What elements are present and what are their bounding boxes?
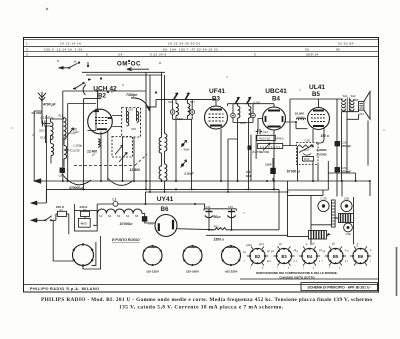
coil S20 between buses <box>159 138 161 154</box>
resistor 250 ohm <box>58 211 67 216</box>
svg-text:S2: S2 <box>108 214 112 218</box>
svg-text:90pF: 90pF <box>184 147 191 151</box>
svg-text:S4: S4 <box>126 214 130 218</box>
capacitor C25 4700pF (block) <box>335 142 340 146</box>
svg-text:S15: S15 <box>131 127 136 131</box>
svg-text:0.27MΩ: 0.27MΩ <box>317 152 327 156</box>
IF2 trimmer capacitor left <box>231 113 236 118</box>
svg-text:50µF: 50µF <box>214 215 221 219</box>
capacitor C05 block <box>142 217 147 222</box>
coil S3 (OC antenna) <box>51 144 54 156</box>
dial scale row 2 numbers <box>26 47 340 51</box>
svg-text:C24: C24 <box>263 130 269 134</box>
printed caption under the sheet <box>41 297 372 310</box>
svg-text:28.97.24·: 28.97.24· <box>306 52 319 56</box>
wire corner right panel <box>288 181 324 237</box>
B plus feed line to output stage <box>290 99 343 146</box>
svg-text:C 29: C 29 <box>320 196 326 200</box>
main chassis bus wire <box>41 181 370 196</box>
svg-text:19·22·24·30·50·51·: 19·22·24·30·50·51· <box>168 42 202 46</box>
band switch wafer 2 <box>73 83 84 89</box>
wire left column verticals <box>63 91 146 189</box>
svg-text:C26: C26 <box>305 139 311 143</box>
svg-text:S12: S12 <box>40 135 46 139</box>
tuning gang arc 1 <box>62 174 91 185</box>
coil S1 (antenna primary) <box>51 122 54 140</box>
wire rectifier anode lead <box>177 229 213 230</box>
svg-text:1·: 1· <box>26 42 29 46</box>
heater bus wire <box>146 192 288 204</box>
wire C2 to coil S1 <box>42 111 51 124</box>
wire B5 cathode resistor <box>313 128 324 143</box>
svg-text:4700pF: 4700pF <box>340 144 351 148</box>
svg-text:SCHEMA DI PRINCIPIO · APP. BI: SCHEMA DI PRINCIPIO · APP. BI 201 U · <box>308 285 372 289</box>
svg-text:MΩ: MΩ <box>246 174 251 178</box>
wire coil block <box>46 118 70 167</box>
cathode coil <box>98 139 100 147</box>
svg-text:C05: C05 <box>148 222 154 226</box>
wire to coil bar <box>311 224 332 226</box>
svg-text:4700pF: 4700pF <box>340 170 351 174</box>
grid line vertical with coils <box>162 72 165 137</box>
core lines <box>347 98 349 112</box>
trimmer box below B2 (dashed) <box>112 137 133 158</box>
svg-text:0.47 MΩ VOL: 0.47 MΩ VOL <box>252 150 269 154</box>
svg-text:+82 220V: +82 220V <box>225 269 238 273</box>
wire IF2 to tubes <box>228 104 275 190</box>
svg-text:1500 Ω: 1500 Ω <box>214 238 225 242</box>
svg-text:g2-4: g2-4 <box>259 243 264 246</box>
svg-text:90pF: 90pF <box>177 117 184 121</box>
trimmer C11 arrow <box>115 146 123 155</box>
wire transformer down with capacitors <box>288 99 356 197</box>
title strip box (bottom) <box>24 284 379 286</box>
dial scale row 1 numbers <box>26 42 355 46</box>
wire B3 cathode lead <box>221 129 238 192</box>
tone pot arrow <box>299 145 313 153</box>
choke terminal labels <box>99 214 139 218</box>
svg-text:5·: 5· <box>86 52 89 56</box>
tube UL41 B5 <box>308 108 330 130</box>
svg-text:244: 244 <box>359 112 364 116</box>
oscillator coil windings <box>127 112 129 126</box>
svg-text:91·52·84·: 91·52·84· <box>338 42 355 46</box>
svg-text:3.4·: 3.4· <box>118 52 123 56</box>
capacitor 1100 electrolytic blob <box>270 168 276 174</box>
wire switch node down to selector <box>53 220 73 261</box>
svg-text:S14: S14 <box>128 108 133 112</box>
svg-text:95·: 95· <box>336 47 340 51</box>
svg-text:B3: B3 <box>281 254 287 259</box>
svg-text:C32: C32 <box>206 205 211 209</box>
shield box double top line <box>82 72 165 75</box>
svg-text:UY41: UY41 <box>157 196 174 203</box>
tuning gang arc 2 <box>108 178 133 185</box>
socket B3 <box>271 243 297 270</box>
chassis bus arrow left <box>34 179 42 184</box>
svg-text:0.68MΩ: 0.68MΩ <box>317 148 327 152</box>
dial scale table rules <box>24 39 379 56</box>
wire right end of buses <box>342 121 368 197</box>
svg-text:g1S2: g1S2 <box>246 244 252 247</box>
svg-text:10'000pF: 10'000pF <box>120 222 134 226</box>
svg-text:B4: B4 <box>307 254 313 259</box>
electrolytic C32 <box>206 211 213 213</box>
wire switch to tube grid <box>88 62 98 110</box>
tone pot resistor <box>298 145 315 148</box>
svg-text:60· 164· 165.7· 47.52·54·19·31: 60· 164· 165.7· 47.52·54·19·31· <box>163 47 220 51</box>
svg-text:B5: B5 <box>333 254 339 259</box>
dial scale row 3 numbers <box>26 52 319 56</box>
tube UCH42 B2 <box>88 109 113 134</box>
wire B4 cathode down <box>251 119 274 190</box>
wire tone box <box>283 146 318 182</box>
svg-text:110·125V: 110·125V <box>146 269 159 273</box>
capacitor C27 block <box>335 168 340 172</box>
coil S4 (OC secondary) <box>64 146 67 159</box>
wire choke to rectifier <box>142 214 155 224</box>
wire IF1 to tubes <box>146 99 216 189</box>
trimmer C12 arrow <box>119 153 127 163</box>
svg-text:·1.300p: ·1.300p <box>72 143 83 147</box>
loudspeaker <box>359 92 371 120</box>
primary winding <box>342 99 346 111</box>
IF transformer 1 secondary coil <box>188 104 190 116</box>
svg-text:UBC41: UBC41 <box>265 88 287 95</box>
switch wafer arc <box>83 85 86 96</box>
svg-text:C1·560·: C1·560· <box>32 111 43 115</box>
coil S2 (antenna secondary) <box>64 118 67 140</box>
svg-text:DISPOSIZIONE DEI COMPENSATORI: DISPOSIZIONE DEI COMPENSATORI E DELLE BO… <box>256 271 338 275</box>
svg-text:10'000 pF: 10'000 pF <box>287 169 301 173</box>
resistor unit outer box <box>75 211 98 231</box>
svg-text:CHASSIS VISTO SOTTO: CHASSIS VISTO SOTTO <box>279 276 315 280</box>
band switch contacts <box>59 63 78 68</box>
electrolytic C33 <box>228 211 235 213</box>
trimmer arrow on S22 <box>181 160 187 168</box>
heater return wire <box>206 234 288 236</box>
svg-text:2·: 2· <box>26 47 29 51</box>
resistor R16 box <box>303 157 314 162</box>
socket B2 <box>243 243 270 270</box>
coil S23 lower <box>165 164 167 181</box>
filter choke winding <box>98 209 143 214</box>
mains prong arrow 2 <box>31 218 38 222</box>
svg-text:B4: B4 <box>272 96 280 103</box>
svg-text:C30: C30 <box>344 196 350 200</box>
wire switch to R250 <box>56 214 69 234</box>
svg-text:46 Ω: 46 Ω <box>81 221 87 225</box>
voltage diagram +82 220V <box>222 245 241 273</box>
bus wire y230 <box>209 189 279 229</box>
resistor 1500 ohm zigzag <box>214 228 228 230</box>
socket B6 <box>347 243 372 266</box>
trimmer C14 arrow with blob <box>181 141 187 148</box>
resistor 46 ohm <box>79 218 91 227</box>
svg-text:7300pF: 7300pF <box>126 93 138 97</box>
svg-text:12.500: 12.500 <box>130 168 140 172</box>
pilot lamp L1 <box>113 202 118 207</box>
coil bar (side view) <box>332 200 336 227</box>
IF transformer 1 core arrows <box>174 93 189 99</box>
trimmer C29 <box>318 200 329 211</box>
IF can top view 1 <box>334 214 354 223</box>
svg-text:S17: S17 <box>190 100 195 104</box>
trimmer C28 <box>344 223 353 232</box>
trimmer C4 7-30pF <box>67 128 74 137</box>
svg-text:C28: C28 <box>345 232 351 236</box>
svg-text:9.52.34.9·: 9.52.34.9· <box>150 52 168 56</box>
bottom panel divider above title strip <box>240 278 379 280</box>
nested corner wires top <box>146 72 150 192</box>
B plus wire through lamp <box>93 204 205 225</box>
svg-text:R2: R2 <box>83 208 87 212</box>
svg-text:L1: L1 <box>113 197 117 201</box>
svg-text:90pF: 90pF <box>240 121 247 125</box>
tuning capacitor curved arrow <box>131 98 150 111</box>
svg-text:150 Ω: 150 Ω <box>321 134 329 138</box>
schema strip box <box>301 283 378 291</box>
wire B2 cathode down <box>101 132 108 182</box>
svg-text:10·12·14·16·: 10·12·14·16· <box>60 42 83 46</box>
IF transformer 1 primary coil <box>176 104 178 116</box>
resistor 240 ohm <box>81 211 90 216</box>
svg-text:3·: 3· <box>26 52 29 56</box>
svg-text:R17: R17 <box>304 148 310 152</box>
svg-text:C33: C33 <box>228 205 233 209</box>
resistor box R12 <box>257 135 276 140</box>
svg-text:UF41: UF41 <box>209 88 225 95</box>
IF transformer 2 secondary coil <box>249 106 251 118</box>
svg-text:B2: B2 <box>255 254 261 259</box>
voltage selector drum <box>73 236 101 269</box>
capacitor C8 block <box>60 168 65 173</box>
capacitor C2 560pF <box>43 121 47 127</box>
wires mid verticals <box>123 108 137 181</box>
trimmer C30 <box>341 200 352 211</box>
socket B5 <box>322 243 347 270</box>
svg-text:PHILIPS·RADIO S.p.A. MILANO: PHILIPS·RADIO S.p.A. MILANO <box>30 287 100 291</box>
trimmer panel left border <box>311 195 354 245</box>
svg-text:3.30pF: 3.30pF <box>184 172 194 176</box>
tube UBC41 B4 <box>263 107 286 130</box>
svg-text:125·160V: 125·160V <box>186 269 199 273</box>
tone network dashed box <box>297 143 319 165</box>
svg-text:S5: S5 <box>135 214 139 218</box>
svg-text:B5: B5 <box>312 91 320 98</box>
wire electrolytic leads <box>209 212 232 230</box>
voltage diagram 125-160V <box>183 245 202 273</box>
svg-text:135 V, catodo 5,8 V. Corrente: 135 V, catodo 5,8 V. Corrente 38 mA plac… <box>119 304 284 310</box>
svg-text:C8: C8 <box>59 174 63 178</box>
IF transformer 2 core arrows <box>236 97 251 103</box>
socket B4 <box>296 243 322 270</box>
IF can top view 2 <box>309 231 331 240</box>
svg-text:S3: S3 <box>117 214 121 218</box>
antenna <box>38 92 46 104</box>
rectifier tube UY41 B6 <box>155 215 177 237</box>
coil S22 lower <box>159 166 161 179</box>
screen grid resistor squiggle <box>296 118 306 120</box>
IF2 trimmer capacitor right <box>251 113 256 118</box>
scan noise specks <box>11 8 384 247</box>
oscillator coil assembly (dashed box) <box>122 108 141 138</box>
svg-text:B6: B6 <box>161 206 169 213</box>
antenna lead wire <box>34 103 42 181</box>
junction dots on buses <box>62 180 371 231</box>
svg-text:1100: 1100 <box>265 162 272 166</box>
mains wire 1 up to bus <box>37 189 46 203</box>
secondary winding <box>350 99 354 111</box>
svg-text:100·0· 12·14·16· 1·50·: 100·0· 12·14·16· 1·50· <box>44 47 84 51</box>
svg-text:R1: R1 <box>60 208 64 212</box>
wire 0.2M and blob <box>272 158 274 181</box>
electrolytic C32 C33 bracket <box>204 204 236 212</box>
band switch direction arrow <box>127 68 149 71</box>
svg-text:4700 pF: 4700 pF <box>42 103 57 107</box>
svg-text:PHILIPS RADIO - Mod. BI. 201 U: PHILIPS RADIO - Mod. BI. 201 U - Gamme o… <box>41 297 372 303</box>
second bus wire <box>46 115 279 203</box>
output transformer S41 S42 <box>342 94 357 111</box>
IF1 trimmer capacitor right <box>190 110 195 115</box>
svg-text:R12 0.02: R12 0.02 <box>259 136 270 140</box>
volume potentiometer box <box>258 143 283 148</box>
capacitor block small <box>248 146 251 149</box>
svg-text:92·: 92· <box>305 47 311 51</box>
svg-text:C11/30: C11/30 <box>70 149 80 153</box>
wire B4 plate to B5 grid <box>286 122 308 129</box>
svg-text:S1: S1 <box>99 214 103 218</box>
svg-text:E·PUNTO ROSSO: E·PUNTO ROSSO <box>112 238 140 242</box>
svg-text:R21: R21 <box>214 224 219 228</box>
svg-text:R16: R16 <box>304 157 310 161</box>
volume pot arrow <box>263 143 270 151</box>
IF1 trimmer capacitor left <box>170 110 175 115</box>
svg-text:S42: S42 <box>351 94 357 98</box>
capacitor C24 coupling <box>256 129 262 134</box>
svg-text:B6: B6 <box>358 254 364 259</box>
outer frame of schematic sheet <box>24 38 379 293</box>
voltage diagram 110-125V <box>143 245 162 273</box>
IF transformer 2 primary coil <box>238 106 240 118</box>
mains prong arrow 1 <box>31 201 38 205</box>
svg-text:C15 60pF: C15 60pF <box>41 116 55 120</box>
svg-text:S10: S10 <box>39 128 45 132</box>
coil S21 between buses <box>165 134 167 152</box>
page edge shadow right <box>396 247 398 296</box>
mains switch <box>37 214 56 220</box>
wire transformer to speaker <box>342 100 359 119</box>
gang dashed link line <box>74 154 147 165</box>
wire B2 to oscillator box <box>112 116 121 127</box>
svg-text:5·: 5· <box>254 52 257 56</box>
tube UF41 B3 <box>205 106 228 129</box>
